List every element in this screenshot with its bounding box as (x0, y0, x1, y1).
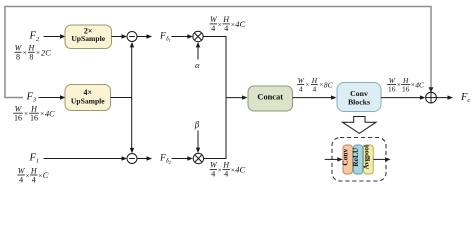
subtractor S1 (127, 32, 137, 42)
wire M1 output right and down to concat junction (203, 37, 226, 98)
svg-text:ReLU: ReLU (351, 147, 360, 167)
wire Fd1 to multiplier M1 (172, 36, 189, 38)
label W/16 x H/16 x 4C after Conv Blocks (387, 76, 425, 93)
svg-text:×: × (23, 48, 27, 57)
multiplier M2 (193, 153, 203, 163)
hollow arrow from Conv Blocks down to detail box (343, 117, 377, 134)
wire Conv Blocks to adder (381, 97, 421, 99)
wire F1 to subtractor S2 (44, 158, 123, 160)
svg-text:×: × (38, 171, 42, 180)
svg-text:UpSample: UpSample (71, 97, 105, 106)
svg-text:4C: 4C (235, 19, 245, 29)
wire junction into Concat (226, 97, 243, 99)
arrowhead skip line into adder (429, 87, 434, 92)
wire branch down into S2 (131, 98, 133, 150)
svg-text:8C: 8C (324, 80, 334, 89)
wire beta down into M2 (197, 131, 199, 149)
svg-text:8: 8 (16, 53, 20, 62)
label W/4 x H/4 x 4C above M1 (210, 15, 246, 33)
svg-text:4: 4 (313, 84, 317, 93)
svg-text:×: × (36, 48, 40, 57)
svg-text:4: 4 (211, 24, 215, 33)
block Conv Blocks (337, 83, 381, 112)
wire F2 to 2x UpSample (44, 36, 62, 38)
svg-text:2C: 2C (41, 47, 51, 57)
svg-text:16: 16 (388, 84, 396, 93)
block Concat (248, 86, 293, 111)
wire S1 to Fd1 (137, 36, 148, 38)
svg-text:×: × (218, 165, 222, 174)
wire skip connection F3 around top to adder (5, 7, 431, 98)
svg-text:×: × (40, 109, 44, 118)
wire Concat to Conv Blocks (293, 97, 333, 99)
svg-text:4: 4 (224, 170, 228, 179)
svg-text:4C: 4C (235, 165, 245, 175)
svg-text:×: × (25, 171, 29, 180)
svg-text:Concat: Concat (257, 93, 283, 102)
svg-text:α: α (195, 60, 200, 70)
label W/4 x H/4 x 4C below M2 (210, 161, 246, 179)
svg-text:16: 16 (30, 114, 38, 123)
svg-text:4: 4 (211, 170, 215, 179)
svg-text:×: × (397, 82, 401, 89)
label W/8 x H/8 x 2C (15, 44, 52, 62)
svg-text:16: 16 (402, 84, 410, 93)
svg-text:UpSample: UpSample (71, 34, 105, 43)
label W/16 x H/16 x 4C (13, 105, 55, 123)
wire Fd2 to multiplier M2 (172, 158, 189, 160)
svg-text:×: × (218, 20, 222, 29)
svg-text:Avgpool: Avgpool (363, 145, 371, 169)
block ReLU (detail) (351, 145, 363, 174)
label W/4 x H/4 x C (17, 166, 48, 184)
wire 4x UpSample output to branch junction (111, 97, 132, 99)
wire into detail box (325, 158, 339, 160)
wire 2x UpSample to subtractor S1 (112, 36, 123, 38)
svg-text:C: C (43, 170, 49, 180)
svg-text:×: × (24, 109, 28, 118)
svg-text:4C: 4C (415, 80, 425, 89)
svg-text:4: 4 (224, 24, 228, 33)
svg-text:4: 4 (19, 175, 23, 184)
block Conv (detail) (341, 145, 353, 174)
subtractor S2 (127, 154, 137, 164)
wire adder to Fc (436, 97, 448, 99)
adder A1 (426, 92, 437, 103)
svg-text:4C: 4C (45, 109, 55, 118)
svg-text:8: 8 (29, 53, 33, 62)
wire M2 output right and up to concat junction (204, 98, 226, 159)
dashed detail box (332, 138, 386, 182)
svg-text:4: 4 (299, 84, 303, 93)
wire F3 to 4x UpSample (39, 97, 62, 99)
wire alpha up into M1 (197, 46, 199, 60)
label W/4 x H/4 x 8C (297, 76, 333, 93)
svg-text:Blocks: Blocks (348, 97, 370, 106)
block 2x UpSample (65, 25, 112, 49)
wire branch up into S1 (131, 46, 133, 98)
svg-text:4: 4 (32, 175, 36, 184)
svg-text:β: β (194, 120, 200, 130)
block Avgpool (detail) (363, 145, 374, 174)
svg-text:×: × (305, 82, 309, 89)
svg-text:Conv: Conv (341, 148, 350, 165)
svg-text:16: 16 (14, 114, 22, 123)
wire out of detail box (373, 158, 386, 160)
multiplier M1 (193, 31, 203, 41)
wire S2 to Fd2 (137, 158, 148, 160)
block 4x UpSample (65, 85, 111, 111)
